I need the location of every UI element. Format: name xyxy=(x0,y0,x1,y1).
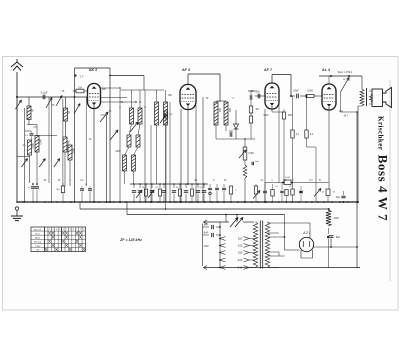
svg-text:8: 8 xyxy=(70,229,71,231)
svg-text:0600: 0600 xyxy=(39,139,42,145)
svg-text:9: 9 xyxy=(73,229,74,231)
svg-text:0,5M: 0,5M xyxy=(248,152,253,155)
svg-text:2: 2 xyxy=(49,229,50,231)
svg-text:0603: 0603 xyxy=(72,148,75,154)
svg-text:8µF: 8µF xyxy=(336,236,341,239)
svg-text:1000: 1000 xyxy=(333,217,339,220)
svg-text:4: 4 xyxy=(56,229,57,231)
svg-text:AF 7: AF 7 xyxy=(264,68,272,72)
svg-text:2: 2 xyxy=(80,229,81,231)
svg-text:0600: 0600 xyxy=(67,140,70,146)
svg-text:8nF: 8nF xyxy=(204,223,209,227)
svg-text:6: 6 xyxy=(63,229,64,231)
svg-text:500: 500 xyxy=(288,114,293,117)
svg-text:5: 5 xyxy=(59,229,60,231)
svg-text:7: 7 xyxy=(66,229,67,231)
svg-text:50n: 50n xyxy=(102,88,107,91)
svg-text:360: 360 xyxy=(228,108,231,113)
svg-text:A Z 1: A Z 1 xyxy=(303,231,311,235)
svg-text:11W: 11W xyxy=(203,244,209,248)
svg-text:125: 125 xyxy=(238,244,243,248)
svg-text:0600: 0600 xyxy=(31,143,34,149)
svg-text:ZF = 128 kHz: ZF = 128 kHz xyxy=(119,238,142,242)
svg-text:50pF: 50pF xyxy=(251,91,257,93)
svg-text:Kurz: Kurz xyxy=(35,232,39,235)
svg-text:M.Lang: M.Lang xyxy=(34,242,42,244)
svg-text:10nF: 10nF xyxy=(293,90,299,93)
svg-text:4µF: 4µF xyxy=(339,111,344,113)
svg-text:24,7: 24,7 xyxy=(344,116,349,118)
svg-text:Spez. L 872-4: Spez. L 872-4 xyxy=(338,71,353,74)
svg-text:1-7: 1-7 xyxy=(80,75,84,79)
svg-text:3: 3 xyxy=(53,229,54,231)
svg-text:AL 4: AL 4 xyxy=(322,68,331,72)
svg-text:1M: 1M xyxy=(255,108,258,111)
svg-text:AF 3: AF 3 xyxy=(182,68,190,72)
svg-text:10n: 10n xyxy=(256,91,261,94)
svg-text:0600: 0600 xyxy=(115,151,121,153)
svg-text:0,5M: 0,5M xyxy=(307,90,312,93)
svg-text:110: 110 xyxy=(238,237,243,241)
svg-text:5nF: 5nF xyxy=(255,161,259,163)
svg-text:8nF: 8nF xyxy=(204,231,209,235)
svg-text:3: 3 xyxy=(83,229,84,231)
svg-text:50nF: 50nF xyxy=(263,115,269,117)
svg-text:8µF: 8µF xyxy=(336,197,341,199)
svg-text:220: 220 xyxy=(238,258,243,262)
svg-text:AK 2: AK 2 xyxy=(89,68,97,72)
svg-text:Bereich: Bereich xyxy=(34,228,42,231)
svg-text:360: 360 xyxy=(218,108,221,113)
svg-text:Mittel: Mittel xyxy=(35,236,41,239)
svg-text:3,1µF: 3,1µF xyxy=(40,91,47,95)
svg-text:150: 150 xyxy=(238,251,243,255)
svg-text:1: 1 xyxy=(76,229,77,231)
